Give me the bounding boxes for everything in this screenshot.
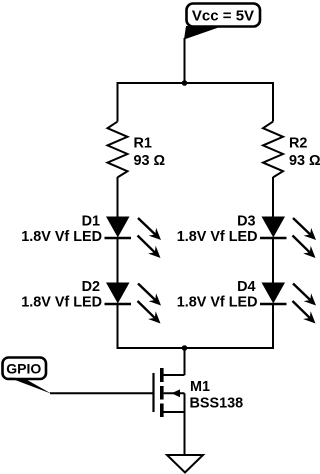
ground xyxy=(167,455,203,473)
wire left branch upper xyxy=(117,82,119,122)
wire bottom rail to M1 drain xyxy=(184,348,186,375)
wire GPIO to gate xyxy=(50,392,154,394)
wire Vcc to top rail xyxy=(184,38,186,83)
wire left branch D1 to D2 xyxy=(117,238,119,283)
wire right branch R2 to D3 xyxy=(272,177,274,217)
resistor R1 xyxy=(108,122,166,178)
wire right branch D4 to bottom rail xyxy=(272,304,274,349)
wire M1 source to ground xyxy=(184,412,186,455)
svg-text:D4: D4 xyxy=(237,279,255,295)
wire left branch D2 to bottom rail xyxy=(117,304,119,349)
wire right branch upper xyxy=(272,82,274,122)
svg-text:R2: R2 xyxy=(289,136,307,152)
svg-text:GPIO: GPIO xyxy=(6,361,41,377)
svg-text:D1: D1 xyxy=(82,213,100,229)
LED D1 xyxy=(21,213,161,258)
svg-text:M1: M1 xyxy=(190,379,210,395)
wire top rail xyxy=(118,82,274,84)
svg-text:1.8V Vf LED: 1.8V Vf LED xyxy=(21,229,102,245)
svg-text:D2: D2 xyxy=(82,279,100,295)
svg-text:1.8V Vf LED: 1.8V Vf LED xyxy=(177,229,258,245)
svg-text:93 Ω: 93 Ω xyxy=(289,153,320,169)
svg-text:D3: D3 xyxy=(237,213,255,229)
wire left branch R1 to D1 xyxy=(117,177,119,217)
svg-text:Vcc = 5V: Vcc = 5V xyxy=(192,8,254,25)
svg-text:1.8V Vf LED: 1.8V Vf LED xyxy=(177,295,258,311)
wire bottom rail xyxy=(118,347,274,349)
LED D4 xyxy=(177,279,316,324)
LED D3 xyxy=(177,213,316,258)
resistor R2 xyxy=(263,122,320,178)
svg-text:BSS138: BSS138 xyxy=(190,396,244,412)
net flag GPIO xyxy=(3,358,52,394)
wire right branch D3 to D4 xyxy=(272,238,274,283)
svg-text:R1: R1 xyxy=(134,136,152,152)
node junction top xyxy=(182,80,188,86)
svg-text:1.8V Vf LED: 1.8V Vf LED xyxy=(21,295,102,311)
LED D2 xyxy=(21,279,161,324)
node junction bottom xyxy=(182,345,188,351)
net flag Vcc xyxy=(184,4,260,40)
transistor M1 xyxy=(154,368,244,417)
svg-text:93 Ω: 93 Ω xyxy=(134,153,166,169)
